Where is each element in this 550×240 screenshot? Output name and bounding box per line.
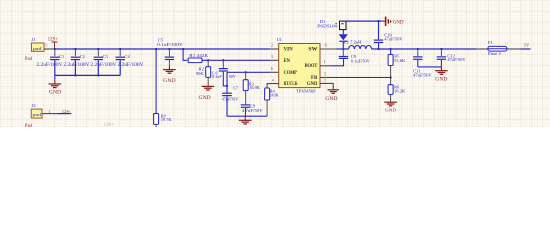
junction R2 top — [207, 59, 209, 61]
comp network bottom rail — [227, 115, 267, 117]
wire top gnd rail — [343, 20, 382, 22]
svg-text:GND: GND — [385, 107, 397, 112]
net label 12S- — [62, 109, 71, 114]
svg-text:Fuse 1: Fuse 1 — [488, 51, 501, 56]
svg-text:GND: GND — [49, 90, 62, 95]
ground R2 — [199, 77, 215, 100]
svg-text:GND: GND — [199, 96, 212, 101]
wire VIN net — [55, 48, 271, 50]
pin 8 SW — [308, 43, 336, 53]
fuse F1 — [477, 40, 520, 56]
ground R6 — [384, 102, 397, 112]
junction C5 top — [168, 48, 170, 50]
junction FB node — [389, 76, 391, 78]
svg-text:1: 1 — [324, 59, 326, 64]
junction C12 top — [440, 48, 442, 50]
svg-text:GND: GND — [393, 20, 405, 25]
wire EN net — [202, 59, 270, 61]
diode D1 PSD5100 — [317, 19, 348, 49]
svg-text:GND: GND — [435, 77, 448, 82]
junction C10 top — [377, 20, 379, 22]
ground U1 pin7 — [325, 90, 339, 102]
capacitor C2 2.2uF/100V — [63, 49, 90, 75]
svg-text:GND: GND — [325, 97, 338, 102]
svg-text:53.6K: 53.6K — [394, 58, 406, 63]
svg-text:19.7K: 19.7K — [161, 117, 172, 122]
svg-text:C1: C1 — [59, 54, 64, 59]
junction C2 top — [74, 48, 76, 50]
svg-text:VIN: VIN — [284, 48, 294, 53]
op-amp U1 TPS54560 body — [277, 37, 320, 94]
ground input caps — [49, 75, 62, 95]
svg-text:12S+: 12S+ — [104, 121, 115, 126]
svg-text:10.2K: 10.2K — [394, 89, 406, 94]
svg-text:1: 1 — [48, 109, 50, 114]
svg-text:pad: pad — [33, 112, 43, 117]
wire 5V net — [520, 48, 530, 50]
svg-text:1: 1 — [45, 43, 47, 48]
svg-text:2: 2 — [271, 43, 273, 48]
svg-text:Pad: Pad — [25, 124, 33, 127]
pin 5 FB — [311, 71, 331, 81]
junction R5 top — [389, 48, 391, 50]
svg-text:C2: C2 — [80, 54, 85, 59]
resistor R5 53.6K — [388, 49, 406, 78]
svg-text:PSD5100: PSD5100 — [317, 23, 338, 28]
svg-text:4.7nF/50V: 4.7nF/50V — [242, 108, 264, 113]
capacitor C10 47uF/50V — [374, 21, 404, 49]
svg-text:C7: C7 — [233, 86, 238, 91]
wire R9 branch — [155, 49, 157, 114]
svg-text:FB: FB — [311, 76, 318, 81]
capacitor C8 4.7nF/50V — [241, 91, 264, 117]
svg-text:TPS54560: TPS54560 — [296, 89, 316, 94]
pin 3 EN label — [271, 54, 291, 64]
power port GND top right — [382, 17, 404, 26]
svg-text:SW: SW — [308, 48, 317, 53]
capacitor C9 0.1uF/50V — [332, 49, 371, 66]
svg-text:L1 7.2uH: L1 7.2uH — [344, 39, 362, 44]
resistor R6 10.2K — [388, 78, 406, 102]
wire R1 branch — [183, 49, 187, 60]
svg-text:U1: U1 — [277, 37, 282, 42]
capacitor C1 2.2uF/100V — [36, 49, 64, 75]
junction C6 top — [222, 59, 224, 61]
ground C5 — [163, 60, 176, 85]
pin 1 of J1 — [44, 43, 55, 49]
svg-text:16.9K: 16.9K — [249, 85, 260, 90]
connector J1 — [25, 37, 44, 62]
svg-text:2.2uF/100V: 2.2uF/100V — [117, 63, 144, 68]
wire C6 to comp node — [223, 72, 227, 86]
svg-text:J2: J2 — [32, 103, 36, 108]
pin 7 GND — [307, 79, 333, 90]
svg-text:47uF/50V: 47uF/50V — [384, 36, 403, 41]
capacitor C3 2.2uF/100V — [90, 49, 117, 75]
svg-text:5: 5 — [324, 71, 326, 76]
wire COMP net — [227, 71, 279, 73]
pin 6 COMP label — [271, 66, 297, 76]
svg-text:RT/CLK: RT/CLK — [284, 82, 298, 87]
capacitor C6 0.1uF/50V — [212, 60, 236, 79]
wire 12S- net — [57, 113, 71, 115]
svg-text:R1 442K: R1 442K — [189, 53, 209, 58]
resistor R9 19.7K — [154, 113, 172, 127]
svg-text:J1: J1 — [31, 37, 35, 42]
svg-text:C3: C3 — [103, 54, 109, 59]
svg-text:pad: pad — [33, 46, 43, 51]
svg-text:5V: 5V — [524, 42, 530, 47]
resistor R4 243K — [265, 84, 280, 117]
pin 3 stub — [270, 59, 278, 61]
resistor R2 90K — [196, 60, 211, 77]
capacitor C12 47uF/50V — [437, 49, 467, 67]
wire C7 bottom — [226, 96, 228, 116]
inductor L1 7.2uH — [344, 39, 372, 49]
pin 2 VIN — [270, 43, 293, 53]
connector J2 — [25, 103, 42, 129]
net label 12S+ faint — [104, 121, 115, 126]
svg-text:243K: 243K — [269, 93, 279, 98]
svg-text:47pF/50V: 47pF/50V — [222, 97, 239, 102]
capacitor C11 47uF/50V — [413, 49, 432, 77]
svg-text:7: 7 — [324, 79, 326, 84]
ground comp network — [239, 116, 252, 124]
svg-text:2.2uF/100V: 2.2uF/100V — [63, 63, 90, 68]
capacitor C4 2.2uF/100V — [116, 49, 145, 75]
svg-text:BOOT: BOOT — [305, 64, 318, 69]
svg-text:0.1uF/50V: 0.1uF/50V — [351, 58, 371, 63]
svg-text:50V: 50V — [229, 74, 236, 79]
junction R3 top — [245, 71, 247, 73]
pin 4 RT/CLK label — [272, 77, 298, 87]
svg-text:4: 4 — [272, 77, 274, 82]
wire VOUT net — [372, 48, 477, 50]
svg-text:2.2uF/100V: 2.2uF/100V — [36, 63, 63, 68]
capacitor C7 47pF/50V — [222, 86, 239, 102]
power port 12S+ — [48, 38, 58, 49]
junction R1 branch — [182, 48, 184, 50]
svg-text:3: 3 — [271, 54, 273, 59]
svg-text:EN: EN — [284, 59, 291, 64]
junction at J1/C1 — [54, 48, 56, 50]
junction C10 bottom — [377, 48, 379, 50]
svg-text:2.2uF/100V: 2.2uF/100V — [90, 63, 117, 68]
junction comp node — [226, 85, 228, 87]
input cap bottom rail — [55, 74, 120, 76]
svg-text:COMP: COMP — [284, 71, 297, 76]
wire COMP vertical — [226, 72, 228, 92]
svg-text:Pad: Pad — [25, 57, 33, 62]
net label 5V — [524, 42, 530, 47]
svg-text:GND: GND — [163, 79, 176, 84]
resistor R3 16.9K — [243, 72, 260, 90]
junction C11 top — [417, 48, 419, 50]
junction C3 top — [97, 48, 99, 50]
svg-text:6: 6 — [271, 66, 273, 71]
junction SW node — [342, 48, 344, 50]
junction R9 branch — [155, 48, 157, 50]
svg-text:47uF/50V: 47uF/50V — [413, 72, 432, 77]
svg-text:12S-: 12S- — [62, 109, 71, 114]
output cap bottom rail — [418, 66, 442, 68]
ground output caps — [435, 67, 448, 82]
svg-text:GND: GND — [307, 82, 318, 87]
svg-text:F1: F1 — [488, 40, 493, 45]
junction C4 top — [119, 48, 121, 50]
svg-text:C4: C4 — [125, 54, 131, 59]
resistor R1 442K — [188, 53, 209, 63]
svg-text:47uF/50V: 47uF/50V — [447, 57, 466, 62]
wire FB net — [331, 77, 391, 79]
pin 1 of J2 — [42, 109, 57, 114]
svg-text:0.1uF/100V: 0.1uF/100V — [157, 42, 183, 47]
pin 1 BOOT — [305, 59, 332, 69]
svg-text:90K: 90K — [196, 71, 204, 76]
svg-text:0.1uF: 0.1uF — [212, 74, 222, 79]
wire SW to L1 — [336, 48, 348, 50]
capacitor C5 0.1uF/100V — [157, 37, 183, 59]
svg-text:8: 8 — [325, 43, 327, 48]
